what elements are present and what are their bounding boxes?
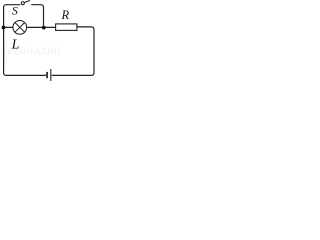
svg-text:S: S [12,3,18,17]
wire lamp row [4,26,56,28]
switch S lever [24,1,30,3]
resistor R box [56,24,77,31]
svg-text:R: R [61,8,70,22]
node junction dot left [2,26,6,30]
battery negative plate (short thick) [46,72,48,78]
switch S contact circle [21,2,24,5]
svg-text:L: L [11,38,20,53]
wire left loop (top wire to switch, left vertical, bottom wire to battery) [4,5,46,76]
wire top right + vertical down to node [31,5,43,27]
wire right side (resistor to right vertical to battery) [52,27,94,76]
svg-text:jyeoo.com: jyeoo.com [1,43,61,58]
battery positive plate (long thin) [50,69,52,81]
node junction dot right [42,26,46,30]
lamp L cross [15,23,25,33]
lamp L bulb circle [13,21,27,35]
